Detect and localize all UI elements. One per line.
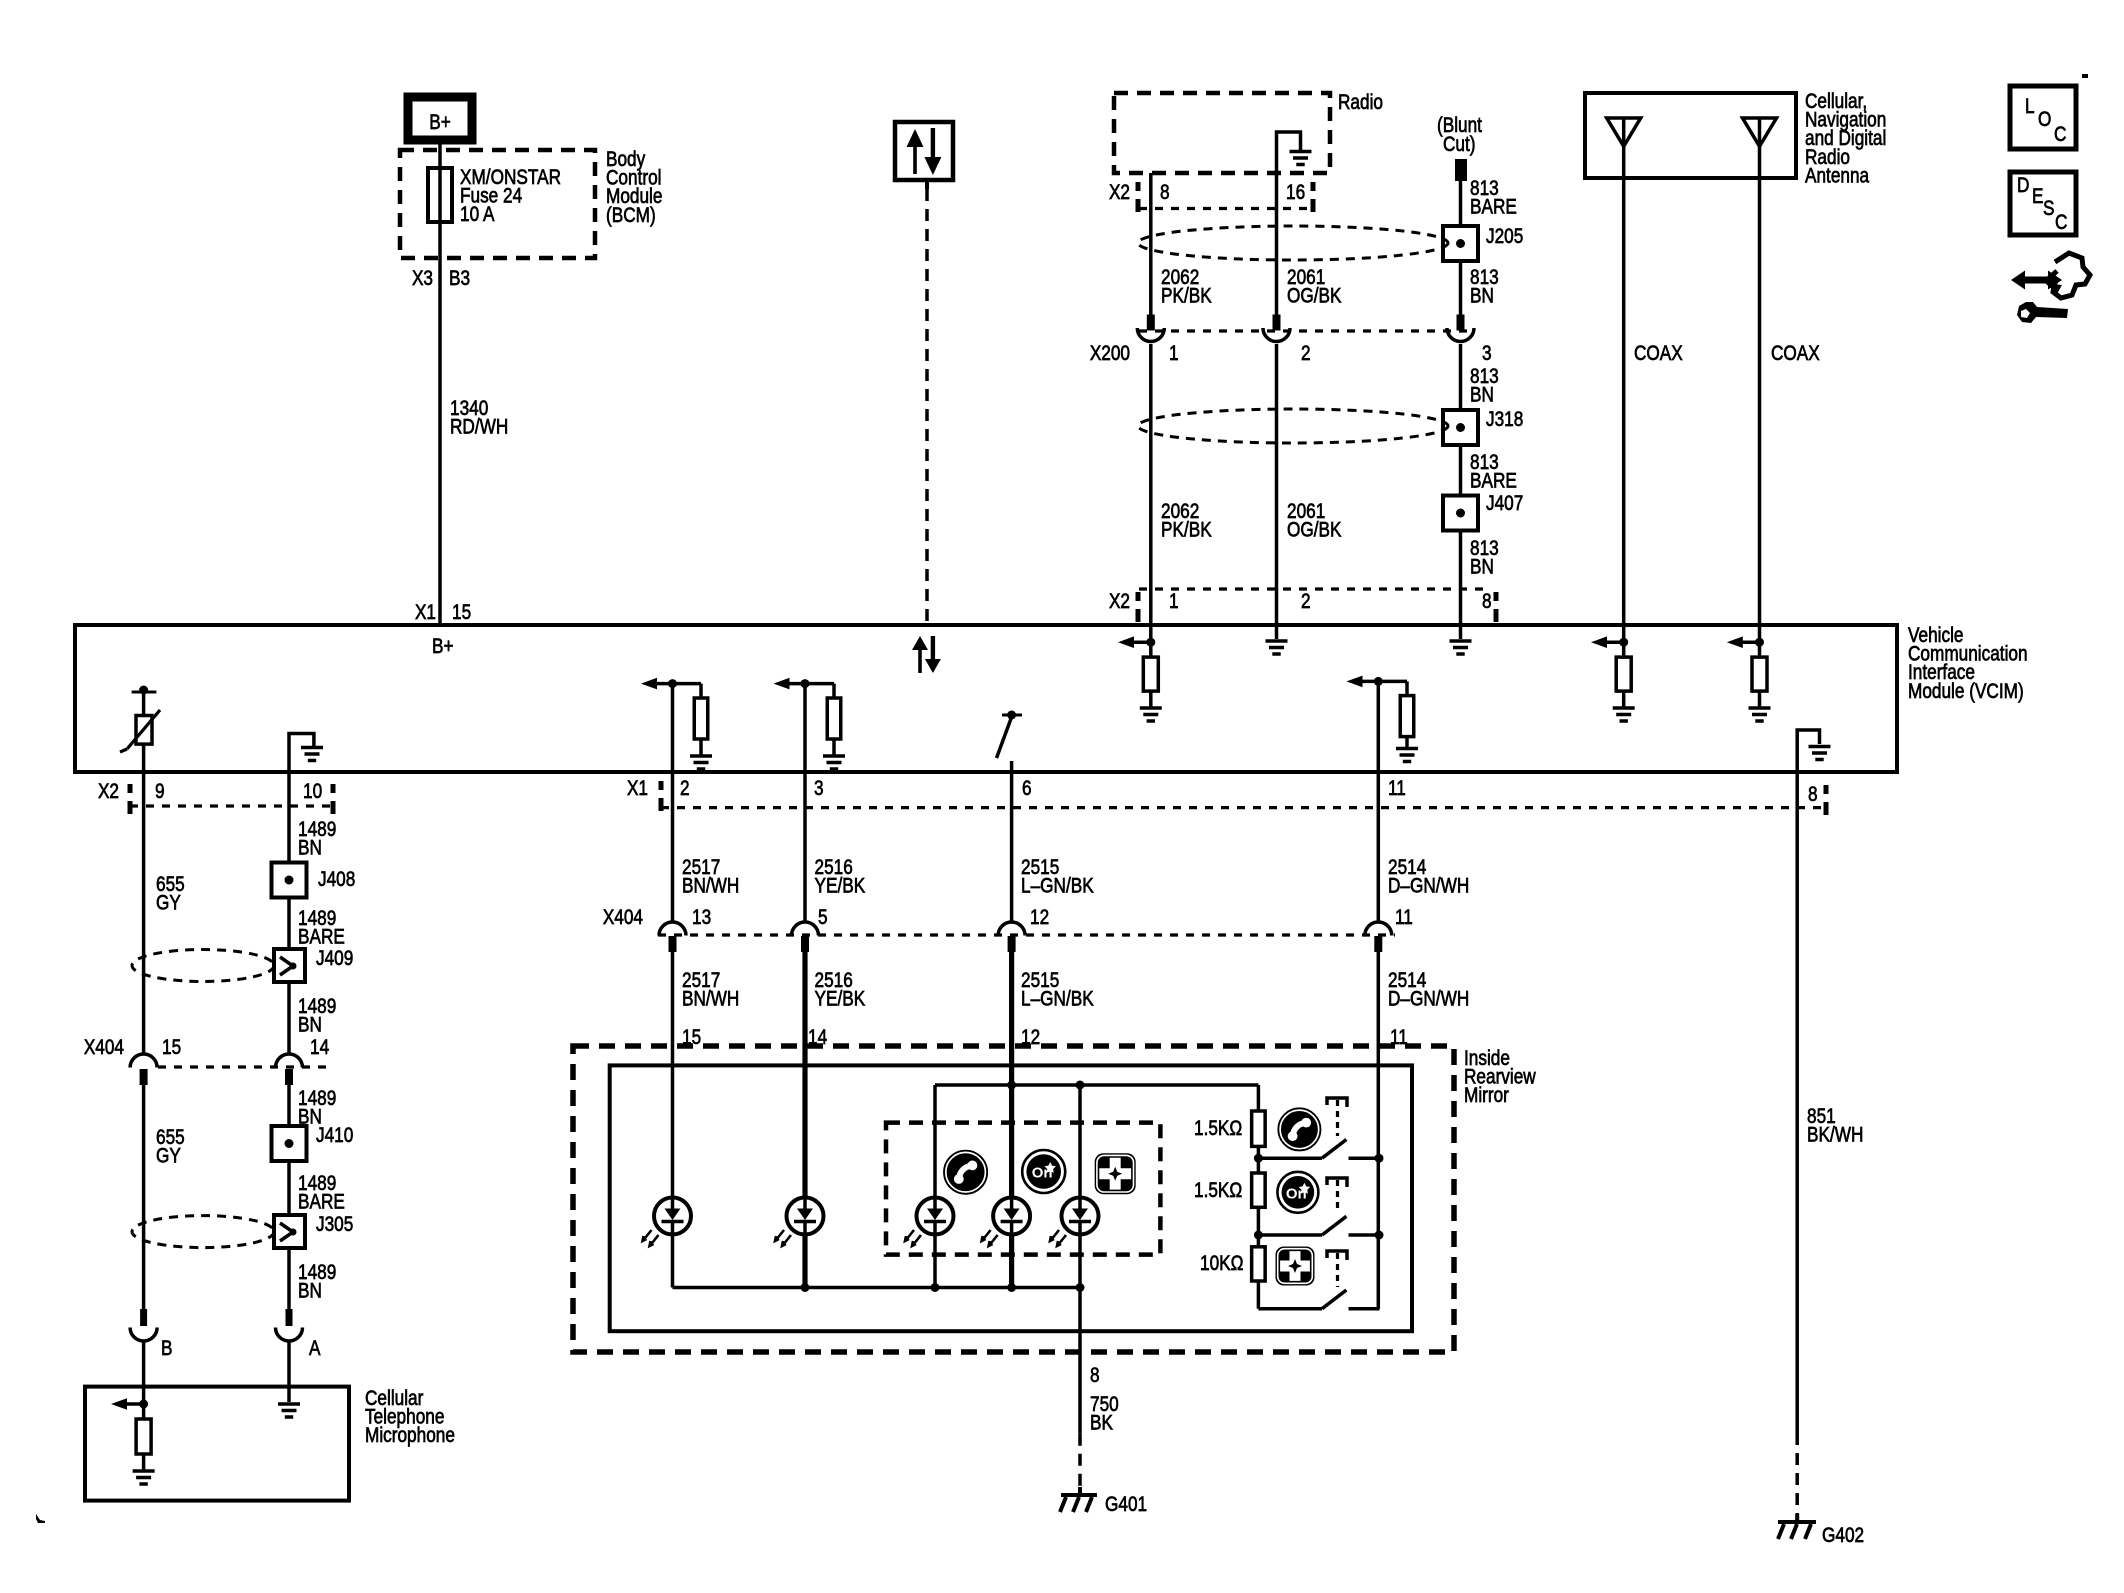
- label wire 1340 RD/WH: [450, 398, 508, 440]
- svg-text:3: 3: [814, 778, 824, 801]
- label J305: [316, 1214, 353, 1237]
- ground symbol in VCIM pin8 right: [1797, 730, 1830, 774]
- node junction 2: [1254, 1231, 1263, 1240]
- ground G401: [1060, 1487, 1097, 1512]
- icon phone in dashed box: [944, 1150, 988, 1194]
- label 851 BK/WH: [1807, 1106, 1863, 1148]
- blunt cut wire top: [1455, 159, 1467, 227]
- label 813 BARE 2: [1470, 452, 1517, 494]
- svg-text:C: C: [2054, 124, 2067, 147]
- splice J318: [1443, 410, 1478, 445]
- svg-text:16: 16: [1286, 182, 1305, 205]
- icon phone switch: [1278, 1108, 1321, 1151]
- svg-text:11: 11: [1388, 778, 1406, 801]
- node dot pin12 wire crossing: [1007, 1081, 1016, 1090]
- wire 2514 D-GN/WH lower: [1377, 952, 1381, 1158]
- node bus LED2: [801, 1283, 810, 1292]
- icon OnStar switch: [1277, 1172, 1318, 1213]
- wire 2061 OG/BK lower: [1275, 344, 1279, 626]
- connector X2 row left: [98, 781, 333, 814]
- label 2062 PK/BK: [1161, 267, 1212, 309]
- svg-text:Cut): Cut): [1443, 134, 1476, 157]
- svg-text:G402: G402: [1822, 1525, 1864, 1548]
- wire LED5 to bus: [1078, 1235, 1082, 1288]
- svg-text:8: 8: [1482, 591, 1492, 614]
- label 813 BARE 1: [1470, 178, 1517, 220]
- svg-text:E: E: [2032, 186, 2043, 209]
- wire 2062 PK/BK upper: [1149, 173, 1153, 315]
- svg-text:J410: J410: [316, 1125, 353, 1148]
- connector X1 row: [627, 778, 1826, 815]
- svg-text:X404: X404: [603, 907, 643, 930]
- module VCIM box: [75, 625, 1897, 772]
- svg-text:X404: X404: [84, 1037, 124, 1060]
- svg-text:X1: X1: [415, 602, 436, 625]
- svg-text:BK: BK: [1090, 1412, 1113, 1435]
- wire dashed to G401: [1078, 1434, 1082, 1491]
- wire 2517 BN/WH upper: [671, 774, 675, 922]
- svg-text:O: O: [2038, 109, 2051, 132]
- svg-text:15: 15: [452, 602, 471, 625]
- twisted pair ellipse 2: [1138, 409, 1448, 443]
- wire 851 BK/WH: [1795, 774, 1799, 1433]
- svg-text:BARE: BARE: [1470, 470, 1517, 493]
- pin X3 B3 labels: [412, 268, 470, 291]
- wire LED5 vertical: [1078, 1085, 1082, 1198]
- svg-text:X2: X2: [98, 781, 119, 804]
- connector X2 radio row: [1109, 182, 1313, 212]
- svg-text:YE/BK: YE/BK: [815, 875, 866, 898]
- splice J410: [272, 1126, 307, 1161]
- label fuse value: [460, 167, 561, 227]
- svg-text:BN: BN: [298, 837, 322, 860]
- connector X2 VCIM top row: [1109, 589, 1496, 622]
- label G401: [1105, 1494, 1147, 1517]
- svg-text:BN: BN: [1470, 556, 1494, 579]
- svg-text:2: 2: [1301, 343, 1311, 366]
- LED top feed line: [935, 1085, 1258, 1198]
- ground symbol radio pin2: [1266, 626, 1288, 654]
- node junction 1: [1254, 1154, 1263, 1163]
- power symbol B+: [408, 97, 472, 140]
- wire LED4 to bus: [1009, 1235, 1014, 1288]
- svg-text:S: S: [2043, 198, 2054, 221]
- node bus LED4: [1007, 1283, 1016, 1292]
- svg-text:J407: J407: [1486, 493, 1523, 516]
- label 750 BK: [1090, 1394, 1119, 1436]
- wire 2516 YE/BK lower: [802, 952, 807, 1198]
- label 2515 L-GN/BK 2: [1021, 970, 1094, 1012]
- twisted pair ellipse 3: [132, 950, 274, 982]
- icon OnStar in dashed box: [1022, 1150, 1065, 1193]
- wire 1489 BN upper: [287, 774, 291, 862]
- svg-text:10KΩ: 10KΩ: [1200, 1253, 1243, 1276]
- svg-text:Microphone: Microphone: [365, 1425, 455, 1448]
- label 655 GY 1: [156, 874, 185, 916]
- label antenna: [1805, 91, 1886, 188]
- splice J409: [274, 949, 305, 982]
- svg-text:Module (VCIM): Module (VCIM): [1908, 680, 2024, 703]
- pin X1 15 labels: [415, 602, 471, 625]
- wire 1489 BARE 2: [287, 1161, 291, 1215]
- label J318: [1486, 409, 1523, 432]
- label COAX 1: [1634, 343, 1683, 366]
- LED 4: [982, 1198, 1031, 1247]
- LED 5: [1050, 1198, 1099, 1247]
- svg-text:BN: BN: [298, 1280, 322, 1303]
- svg-text:OG/BK: OG/BK: [1287, 285, 1342, 308]
- svg-text:COAX: COAX: [1634, 343, 1683, 366]
- button bracket 2: [1327, 1178, 1347, 1213]
- wire 2514 D-GN/WH upper: [1377, 774, 1381, 922]
- module Cellular Telephone Microphone box: [85, 1387, 349, 1501]
- svg-text:10: 10: [303, 781, 322, 804]
- svg-text:A: A: [309, 1338, 321, 1361]
- svg-text:2: 2: [1301, 591, 1311, 614]
- resistor 1.5K 2: [1252, 1173, 1266, 1207]
- svg-text:G401: G401: [1105, 1494, 1147, 1517]
- label 2514 D-GN/WH 2: [1388, 970, 1469, 1012]
- label G402: [1822, 1525, 1864, 1548]
- svg-text:6: 6: [1022, 778, 1032, 801]
- mirror pin labels 15 14 12 11: [682, 1027, 1408, 1050]
- label 2517 BN/WH 1: [682, 857, 739, 899]
- svg-text:OG/BK: OG/BK: [1287, 519, 1342, 542]
- ground symbol radio pin8: [1450, 626, 1472, 654]
- antenna symbol 1: [1607, 118, 1641, 178]
- label COAX 2: [1771, 343, 1820, 366]
- svg-text:D–GN/WH: D–GN/WH: [1388, 988, 1469, 1011]
- fuse F24 XM/ONSTAR 10A: [428, 168, 452, 222]
- svg-text:12: 12: [1030, 907, 1049, 930]
- splice J408: [272, 863, 307, 898]
- stray mark top right: [2082, 74, 2088, 78]
- svg-text:J305: J305: [316, 1214, 353, 1237]
- wire resistor1 to junction: [1257, 1146, 1261, 1173]
- svg-text:C: C: [2055, 212, 2068, 235]
- connector B A row: [130, 1309, 321, 1360]
- wire 655 GY upper: [142, 774, 146, 1054]
- wire dashed serial data to VCIM: [925, 189, 929, 626]
- switch symbol pin6: [997, 711, 1023, 775]
- output symbol pin3 arrow resistor ground: [774, 678, 846, 774]
- LED 2: [775, 1198, 824, 1247]
- label 813 BN 4: [1470, 538, 1499, 580]
- node dot pin8 wire crossing: [1076, 1081, 1085, 1090]
- svg-text:3: 3: [1482, 343, 1492, 366]
- svg-text:J409: J409: [316, 948, 353, 971]
- module Radio dashed box: [1114, 93, 1330, 173]
- svg-text:8: 8: [1808, 784, 1818, 807]
- twisted pair ellipse 4: [132, 1216, 274, 1248]
- label 813 BN 3: [1470, 366, 1499, 408]
- svg-text:D–GN/WH: D–GN/WH: [1388, 875, 1469, 898]
- svg-text:BN: BN: [1470, 384, 1494, 407]
- ground symbol in VCIM pin10: [289, 734, 323, 775]
- legend LOC box: [2010, 86, 2076, 149]
- legend DESC box: [2010, 172, 2076, 235]
- node bus LED5 corner: [1076, 1283, 1085, 1292]
- svg-text:BN/WH: BN/WH: [682, 875, 739, 898]
- label 2061 OG/BK: [1287, 267, 1342, 309]
- svg-text:BN/WH: BN/WH: [682, 988, 739, 1011]
- svg-text:GY: GY: [156, 892, 181, 915]
- node bus dot 1: [1375, 1154, 1384, 1163]
- svg-text:15: 15: [162, 1037, 181, 1060]
- node bus LED3: [931, 1283, 940, 1292]
- label Inside Rearview Mirror: [1464, 1048, 1536, 1108]
- label 655 GY 2: [156, 1127, 185, 1169]
- label 2516 YE/BK 2: [815, 970, 866, 1012]
- label J410: [316, 1125, 353, 1148]
- svg-text:1.5KΩ: 1.5KΩ: [1194, 1180, 1242, 1203]
- wire 1489 BN 3: [287, 1085, 291, 1128]
- splice J407: [1443, 496, 1478, 531]
- svg-text:X200: X200: [1090, 343, 1130, 366]
- svg-text:BARE: BARE: [298, 926, 345, 949]
- svg-text:B3: B3: [449, 268, 470, 291]
- svg-text:RD/WH: RD/WH: [450, 416, 508, 439]
- wire COAX 1: [1622, 178, 1626, 626]
- splice J205: [1443, 226, 1478, 261]
- svg-text:J205: J205: [1486, 226, 1523, 249]
- svg-text:X2: X2: [1109, 591, 1130, 614]
- wire B+ to fuse: [438, 140, 442, 168]
- output symbol pin2 arrow resistor ground: [641, 678, 712, 774]
- legend wrench arrow icon: [2011, 253, 2090, 323]
- module Inside Rearview Mirror dashed box: [573, 1046, 1454, 1352]
- svg-text:10 A: 10 A: [460, 204, 495, 227]
- button bracket 1: [1327, 1098, 1347, 1136]
- button bracket 3: [1327, 1251, 1347, 1287]
- svg-text:5: 5: [818, 907, 828, 930]
- module BCM dashed box: [400, 150, 595, 258]
- svg-text:L–GN/BK: L–GN/BK: [1021, 875, 1094, 898]
- wire 1489 BN 2: [287, 982, 291, 1054]
- label microphone: [365, 1388, 455, 1448]
- svg-text:PK/BK: PK/BK: [1161, 285, 1212, 308]
- label 10K: [1200, 1253, 1243, 1276]
- wire 655 GY lower: [142, 1085, 146, 1309]
- svg-text:PK/BK: PK/BK: [1161, 519, 1212, 542]
- label 2516 YE/BK 1: [815, 857, 866, 899]
- LED bottom bus: [673, 1286, 1081, 1290]
- svg-text:X1: X1: [627, 778, 648, 801]
- svg-text:B+: B+: [429, 112, 451, 135]
- resistor 10K: [1252, 1247, 1266, 1281]
- twisted pair ellipse 1: [1138, 226, 1448, 260]
- wire pin8 mirror exit: [1078, 1288, 1082, 1434]
- svg-text:D: D: [2017, 175, 2029, 198]
- svg-text:L: L: [2025, 96, 2035, 119]
- svg-text:B+: B+: [432, 636, 454, 659]
- svg-text:BN: BN: [1470, 285, 1494, 308]
- label 1489 BN 4: [298, 1262, 336, 1304]
- label 1489 BARE 1: [298, 908, 345, 950]
- svg-text:YE/BK: YE/BK: [815, 988, 866, 1011]
- label 1.5K 2: [1194, 1180, 1242, 1203]
- label 1489 BARE 2: [298, 1173, 345, 1215]
- wire COAX 2: [1758, 178, 1762, 626]
- svg-text:X2: X2: [1109, 182, 1130, 205]
- wire 813 BN to X200: [1459, 261, 1463, 315]
- wire 813 BARE to J407: [1459, 445, 1463, 496]
- label Radio: [1338, 92, 1383, 115]
- label 1489 BN 3: [298, 1088, 336, 1130]
- input symbol coax2 arrow resistor ground: [1727, 626, 1771, 721]
- svg-text:1: 1: [1169, 343, 1179, 366]
- wire LED1 to bus: [671, 1235, 675, 1288]
- LED 1: [643, 1198, 692, 1247]
- connector X404 left row: [84, 1037, 330, 1085]
- label 2062 PK/BK 2: [1161, 501, 1212, 543]
- svg-text:L–GN/BK: L–GN/BK: [1021, 988, 1094, 1011]
- label VCIM: [1908, 625, 2028, 704]
- svg-text:13: 13: [692, 907, 711, 930]
- connector X404 mid row: [603, 907, 1413, 952]
- output symbol pin11 arrow resistor ground: [1347, 676, 1419, 774]
- wire 2517 BN/WH lower: [671, 952, 675, 1198]
- wire 1489 BN 4: [287, 1248, 291, 1309]
- switch 3: [1322, 1290, 1380, 1309]
- ground symbol inside radio: [1277, 132, 1312, 173]
- switch 1: [1258, 1140, 1379, 1159]
- resistor chain corner: [1257, 1085, 1261, 1111]
- resistor 1.5K 1: [1252, 1111, 1266, 1146]
- wire resistor3 to switch3: [1258, 1281, 1322, 1309]
- svg-text:J408: J408: [318, 869, 355, 892]
- svg-text:(BCM): (BCM): [606, 204, 656, 227]
- wire 2516 YE/BK upper: [803, 774, 807, 922]
- stray mark bottom left: [36, 1514, 45, 1523]
- label B+ bus: [432, 636, 454, 659]
- inner dashed box: [886, 1123, 1160, 1255]
- svg-text:8: 8: [1090, 1365, 1100, 1388]
- ground G402: [1778, 1514, 1816, 1539]
- connector X200 row: [1090, 315, 1492, 366]
- label 2514 D-GN/WH 1: [1388, 857, 1469, 899]
- wire 813 BN below X200: [1459, 344, 1463, 412]
- icon cross switch: [1276, 1247, 1315, 1286]
- mic ground symbol: [278, 1404, 300, 1417]
- svg-text:GY: GY: [156, 1145, 181, 1168]
- LED 3: [905, 1198, 954, 1247]
- microphone variable resistor symbol in VCIM: [120, 686, 160, 775]
- svg-text:X3: X3: [412, 268, 433, 291]
- serial data symbol box: [895, 122, 953, 189]
- svg-text:1.5KΩ: 1.5KΩ: [1194, 1118, 1242, 1141]
- node bus dot 2: [1375, 1231, 1384, 1240]
- wire 813 BN to VCIM: [1459, 530, 1463, 626]
- svg-text:BN: BN: [298, 1014, 322, 1037]
- wire 1489 BARE 1: [287, 898, 291, 949]
- wire dashed to G402: [1795, 1433, 1799, 1518]
- label J408: [318, 869, 355, 892]
- antenna symbol 2: [1743, 118, 1777, 178]
- label 1.5K 1: [1194, 1118, 1242, 1141]
- wire 2515 L-GN/BK upper: [1010, 774, 1014, 922]
- icon cross in dashed box: [1095, 1153, 1136, 1194]
- svg-text:Mirror: Mirror: [1464, 1085, 1509, 1108]
- wire 2061 OG/BK upper: [1275, 173, 1279, 315]
- label J409: [316, 948, 353, 971]
- splice J305: [274, 1215, 305, 1248]
- label pin 8: [1090, 1365, 1100, 1388]
- svg-text:BARE: BARE: [298, 1191, 345, 1214]
- label 2515 L-GN/BK 1: [1021, 857, 1094, 899]
- label 1489 BN 2: [298, 996, 336, 1038]
- label Body Control Module (BCM): [606, 149, 662, 228]
- wire mic A: [287, 1341, 291, 1402]
- svg-text:COAX: COAX: [1771, 343, 1820, 366]
- switch 2: [1258, 1216, 1379, 1235]
- svg-text:BARE: BARE: [1470, 196, 1517, 219]
- wire LED2 to bus: [802, 1235, 807, 1288]
- label 1489 BN 1: [298, 819, 336, 861]
- wire mic B: [142, 1341, 146, 1404]
- svg-text:2: 2: [680, 778, 690, 801]
- mic output arrow resistor ground: [111, 1398, 155, 1484]
- wire 2062 PK/BK lower: [1149, 344, 1153, 626]
- label J205: [1486, 226, 1523, 249]
- svg-text:Radio: Radio: [1338, 92, 1383, 115]
- input symbol coax1 arrow resistor ground: [1591, 626, 1635, 721]
- mirror inner box: [610, 1065, 1412, 1331]
- label (Blunt Cut): [1437, 115, 1483, 157]
- svg-text:11: 11: [1395, 907, 1413, 930]
- input symbol radio pin1 arrow resistor ground: [1118, 626, 1162, 721]
- wire LED3 to bus: [933, 1235, 937, 1288]
- label J407: [1486, 493, 1523, 516]
- svg-text:B: B: [161, 1338, 172, 1361]
- svg-text:Antenna: Antenna: [1805, 165, 1869, 188]
- svg-text:9: 9: [155, 781, 165, 804]
- svg-text:BK/WH: BK/WH: [1807, 1124, 1863, 1147]
- switch bus vertical pin11: [1377, 1158, 1381, 1309]
- antenna box Cellular Navigation and Digital Radio Antenna: [1585, 93, 1796, 178]
- wire 1340 RD/WH: [438, 222, 442, 626]
- label 813 BN 2: [1470, 267, 1499, 309]
- wire 2515 L-GN/BK lower: [1009, 952, 1014, 1198]
- svg-text:J318: J318: [1486, 409, 1523, 432]
- svg-text:1: 1: [1169, 591, 1179, 614]
- label 2061 OG/BK 2: [1287, 501, 1342, 543]
- svg-text:8: 8: [1160, 182, 1170, 205]
- label 2517 BN/WH 2: [682, 970, 739, 1012]
- svg-text:14: 14: [310, 1037, 329, 1060]
- wire resistor2 to junction: [1257, 1207, 1261, 1247]
- serial data arrows in VCIM: [912, 636, 941, 673]
